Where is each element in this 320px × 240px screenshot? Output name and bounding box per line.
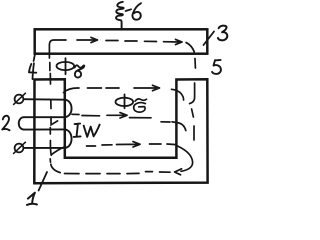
coil turn 4 [23, 147, 64, 149]
coil right bulge 1 [65, 100, 72, 118]
leakage flux line C dashes right [150, 143, 177, 146]
label 1 [27, 193, 37, 205]
flux dashes in left pole [50, 101, 52, 109]
leakage flux line B dashes left [72, 114, 100, 116]
coil turn 1 [23, 98, 64, 101]
label Phi-delta (gap flux) [57, 58, 75, 74]
leakage flux line C arrow [117, 142, 141, 147]
leakage flux line A: hook out of left pole [64, 88, 80, 93]
bottom return flux dashes [65, 172, 171, 174]
leakage flux line B dashes right [130, 118, 171, 122]
coil right bulge 2 [65, 129, 72, 148]
label 6 [132, 3, 141, 20]
flux curve from left pole into bottom return path [51, 164, 60, 172]
coil turn 3 [24, 128, 65, 130]
coil left bulge [19, 117, 24, 129]
flux dash crossing coil turn 3 [49, 128, 51, 135]
coil terminal bottom [15, 144, 24, 153]
armature bar 3 [35, 29, 208, 53]
dash crossing left pole top [49, 74, 51, 85]
label I of IW [74, 124, 81, 137]
leakage flux line A arrow [134, 85, 160, 90]
label delta of Phi-delta [75, 65, 85, 77]
flux arrow in bar (right) [164, 39, 183, 44]
leakage flux line B arrow [107, 113, 127, 118]
flux check-arrow in left pole (upper) [51, 117, 58, 125]
label 4 [29, 63, 36, 79]
leakage flux line A dashes [88, 87, 120, 89]
coil turn 2 [24, 116, 65, 118]
leakage flux line B crossing into right pole [172, 122, 186, 131]
leader dash for label 6 [126, 9, 131, 11]
label 3 [218, 26, 227, 41]
label Phi-sigma (leakage flux) [116, 94, 147, 112]
label W of IW [84, 125, 100, 137]
flux dashes in right pole [190, 83, 195, 104]
tick for label 4 [34, 53, 36, 62]
flux dash below coil [49, 159, 51, 162]
flux stroke with barb above bottom return [50, 141, 63, 156]
spring 6 [116, 2, 124, 29]
gap 5 flux dash [194, 59, 196, 69]
tick for label 1 [39, 172, 47, 191]
flux curve through inner corner into return path with left arrow [178, 146, 193, 171]
gap 4 flux dash [49, 63, 51, 71]
coil terminal top [15, 95, 24, 104]
leakage flux line A hook into right pole [172, 89, 184, 100]
flux arrow in bar (left) [77, 37, 98, 42]
core 1 (U-shaped yoke with left and right poles) [34, 79, 207, 183]
label 5 [212, 60, 221, 74]
flux dashes in bar [106, 41, 157, 42]
label 2 [2, 116, 9, 131]
flux hook at right end of bar [186, 43, 194, 52]
flux line in bar: corner from left gap [49, 40, 66, 58]
tick for label 3 [204, 32, 215, 46]
leakage flux line C dashes left [87, 145, 113, 146]
